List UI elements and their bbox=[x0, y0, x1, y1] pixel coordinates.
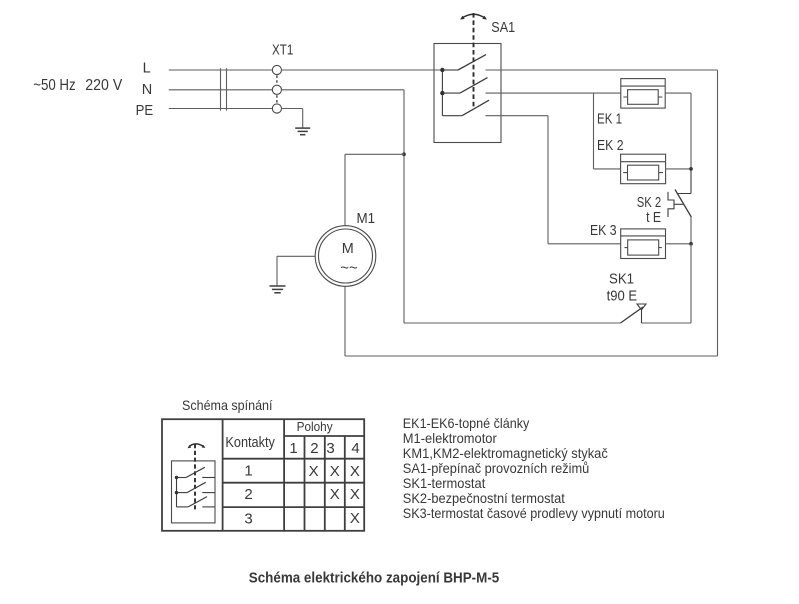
wire EK2 right to junction bbox=[666, 168, 691, 170]
bottom rail wire bbox=[345, 355, 718, 357]
mini switch dashed shaft bbox=[194, 444, 196, 510]
wire SK2 to EK3 junction bbox=[690, 217, 692, 244]
mini switch contact 3 bbox=[177, 497, 216, 507]
svg-text:X: X bbox=[330, 463, 340, 480]
svg-text:X: X bbox=[350, 510, 360, 527]
junction node SA1 common mid bbox=[440, 91, 444, 95]
svg-text:L: L bbox=[143, 60, 151, 76]
wire EK3 junction down to SK1 fixed side bbox=[642, 244, 692, 323]
mini switch junction dot 2 bbox=[175, 491, 178, 494]
switch SA1 contact 2 bbox=[442, 78, 487, 94]
switch SA1 common bus vertical bbox=[441, 70, 443, 116]
svg-text:X: X bbox=[350, 486, 360, 503]
svg-text:EK 1: EK 1 bbox=[597, 110, 622, 127]
junction node SA1 common L bbox=[440, 68, 444, 72]
svg-text:PE: PE bbox=[136, 103, 154, 119]
wire motor bottom to bottom rail bbox=[344, 286, 346, 356]
svg-text:Schéma spínání: Schéma spínání bbox=[182, 397, 273, 413]
wire PE from XT1 to ground bbox=[282, 109, 303, 128]
svg-text:1: 1 bbox=[244, 463, 252, 480]
wire SK1 left to N vertical bbox=[404, 322, 621, 324]
svg-text:M1: M1 bbox=[357, 210, 376, 227]
svg-text:XT1: XT1 bbox=[272, 43, 293, 59]
svg-text:3: 3 bbox=[326, 440, 334, 457]
svg-text:X: X bbox=[350, 463, 360, 480]
svg-text:t E: t E bbox=[646, 209, 661, 226]
heater element EK2 bbox=[621, 154, 666, 184]
terminal XT1 pin L bbox=[272, 65, 281, 74]
svg-text:SK3-termostat časové prodlevy: SK3-termostat časové prodlevy vypnutí mo… bbox=[403, 506, 665, 521]
wire N from XT1 to vertical drop bbox=[282, 89, 405, 91]
switch SA1 mechanical dashed shaft bbox=[473, 13, 475, 108]
wire branch from N junction to motor top bbox=[345, 154, 404, 226]
switch table frame bbox=[162, 419, 364, 531]
mini switch contact 1 bbox=[177, 467, 216, 477]
svg-text:Kontakty: Kontakty bbox=[225, 435, 275, 451]
svg-text:SA1-přepínač provozních režimů: SA1-přepínač provozních režimů bbox=[403, 461, 590, 476]
wire EK3 right to junction bbox=[666, 243, 692, 245]
svg-text:~50 Hz: ~50 Hz bbox=[33, 77, 75, 94]
svg-text:220 V: 220 V bbox=[85, 77, 123, 94]
svg-text:1: 1 bbox=[289, 440, 297, 457]
svg-text:EK 2: EK 2 bbox=[597, 137, 624, 154]
switch SA1 rotation arc arrow bbox=[462, 14, 486, 18]
switch SA1 contact 3 bbox=[442, 100, 489, 116]
svg-text:~~: ~~ bbox=[340, 259, 358, 276]
wire branch vertical to heater EK2 bbox=[594, 93, 621, 169]
junction node EK3/SK1 bbox=[689, 242, 693, 246]
mini switch junction dot 1 bbox=[175, 476, 178, 479]
motor M1 symbol bbox=[315, 226, 376, 287]
thermostat SK2 contact bbox=[668, 169, 691, 217]
wire EK1 right to rail bbox=[665, 93, 691, 169]
svg-text:4: 4 bbox=[351, 440, 359, 457]
svg-text:EK1-EK6-topné články: EK1-EK6-topné články bbox=[403, 416, 530, 431]
svg-text:SK1-termostat: SK1-termostat bbox=[403, 476, 486, 491]
wire from SA1 contact 2 to heater EK1 bbox=[486, 92, 621, 94]
ground symbol for PE bbox=[295, 128, 310, 135]
heater element EK3 bbox=[621, 229, 666, 259]
svg-text:EK 3: EK 3 bbox=[590, 222, 617, 239]
thermostat SK1 fixed contact lead and triangle bbox=[637, 304, 646, 323]
wire N from supply to terminal XT1 bbox=[169, 89, 273, 91]
svg-text:2: 2 bbox=[310, 440, 318, 457]
cable marker (double slash) on supply lines bbox=[221, 68, 227, 110]
thermostat SK1 moving blade bbox=[621, 307, 644, 323]
mini switch diagram box in table bbox=[172, 461, 216, 523]
svg-text:2: 2 bbox=[244, 486, 252, 503]
wire L from supply to terminal XT1 bbox=[169, 69, 273, 71]
mini switch rotation arc arrow bbox=[189, 444, 204, 447]
wire N vertical down to SK1 line bbox=[403, 90, 405, 323]
svg-text:KM1,KM2-elektromagnetický styk: KM1,KM2-elektromagnetický stykač bbox=[403, 446, 608, 461]
heater element EK1 bbox=[621, 79, 665, 109]
dashed link between XT1 terminals bbox=[276, 75, 278, 104]
wire from SA1 contact 3 down to heater EK3 bbox=[486, 116, 621, 244]
terminal XT1 pin PE bbox=[272, 104, 281, 113]
wire motor left to ground bbox=[277, 256, 315, 285]
right rail vertical wire bbox=[717, 70, 719, 356]
svg-text:3: 3 bbox=[244, 510, 252, 527]
label ~50Hz 220V supply bbox=[33, 77, 123, 94]
junction node on N vertical bbox=[402, 152, 406, 156]
svg-text:M: M bbox=[342, 240, 354, 257]
svg-text:SK1: SK1 bbox=[609, 270, 634, 287]
switch SA1 enclosure box bbox=[434, 44, 501, 143]
terminal XT1 pin N bbox=[272, 85, 281, 94]
wire PE from supply to terminal XT1 bbox=[169, 108, 273, 110]
svg-text:X: X bbox=[309, 463, 319, 480]
svg-text:M1-elektromotor: M1-elektromotor bbox=[403, 431, 497, 446]
mini switch contact 2 bbox=[177, 482, 216, 492]
table row1 X marks bbox=[309, 463, 360, 480]
svg-text:SK2-bezpečnostní termostat: SK2-bezpečnostní termostat bbox=[403, 491, 565, 506]
svg-text:Schéma elektrického zapojení B: Schéma elektrického zapojení BHP-M-5 bbox=[249, 570, 500, 586]
wire L from XT1 to switch SA1 bbox=[282, 69, 443, 71]
mini switch common bus bbox=[176, 478, 178, 507]
junction node EK1/EK2/SK2 bbox=[689, 167, 693, 171]
svg-text:X: X bbox=[330, 486, 340, 503]
svg-text:SA1: SA1 bbox=[491, 20, 515, 36]
svg-text:Polohy: Polohy bbox=[297, 419, 333, 434]
ground symbol for motor bbox=[270, 286, 286, 293]
wire from SA1 contact 1 to right rail bbox=[486, 69, 718, 71]
switch SA1 contact 1 bbox=[442, 55, 486, 70]
svg-text:t90 E: t90 E bbox=[607, 287, 638, 304]
svg-text:N: N bbox=[142, 82, 152, 98]
table row2 X marks bbox=[330, 486, 360, 503]
